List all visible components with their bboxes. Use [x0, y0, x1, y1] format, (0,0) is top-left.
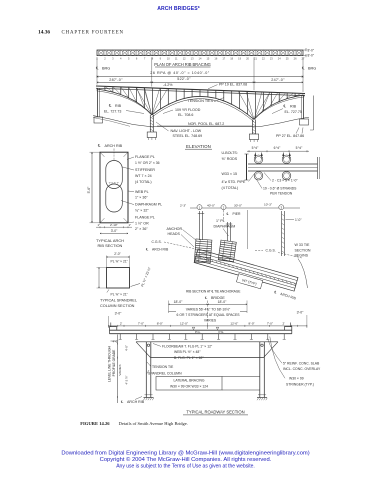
- svg-text:NAV. LIGHT - LOW: NAV. LIGHT - LOW: [171, 129, 202, 133]
- svg-text:Any use is subject to the Term: Any use is subject to the Terms of Use a…: [116, 463, 255, 469]
- svg-text:℄: ℄: [97, 144, 101, 148]
- svg-text:W 33 TIE: W 33 TIE: [295, 243, 311, 247]
- anchor block 2: [218, 240, 236, 262]
- left abutment bent: [97, 88, 99, 117]
- svg-text:ARCH RIB: ARCH RIB: [127, 400, 145, 404]
- ground and water line: [93, 116, 309, 127]
- svg-text:8'-0": 8'-0": [308, 49, 315, 53]
- svg-text:2'-3": 2'-3": [180, 203, 186, 207]
- hangers / spandrel columns: [104, 86, 106, 90]
- right abutment bent: [303, 95, 305, 119]
- svg-text:FIGURE 14.26: FIGURE 14.26: [80, 421, 110, 426]
- svg-text:CHAPTER FOURTEEN: CHAPTER FOURTEEN: [62, 30, 124, 35]
- svg-text:2 - C3 × 5 × 1'-0": 2 - C3 × 5 × 1'-0": [272, 179, 298, 183]
- channel band: [248, 163, 318, 165]
- svg-text:TENSION TIES: TENSION TIES: [188, 99, 214, 103]
- svg-text:30'-0": 30'-0": [234, 203, 242, 207]
- svg-text:1": 1": [129, 223, 132, 227]
- svg-text:ARCH BRIDGES*: ARCH BRIDGES*: [157, 6, 200, 12]
- floorbeam: [136, 341, 278, 343]
- svg-text:PP 19 EL. 837.08: PP 19 EL. 837.08: [219, 83, 247, 87]
- svg-text:5" REINF. CONC. SLAB: 5" REINF. CONC. SLAB: [283, 361, 320, 365]
- svg-text:8'-0": 8'-0": [308, 53, 315, 57]
- spandrel column box: [107, 268, 130, 289]
- column 3: [281, 211, 283, 256]
- svg-text:10'-3": 10'-3": [264, 203, 272, 207]
- u-bolt rods: [254, 153, 256, 159]
- rib centerline: [113, 155, 115, 162]
- leader std pipe: [249, 174, 255, 182]
- svg-text:PER TENDON: PER TENDON: [270, 192, 293, 196]
- rib section box: [100, 152, 128, 223]
- column base hatches: [144, 398, 145, 400]
- deck slab: [110, 329, 292, 331]
- band right dims 8'-0": [305, 48, 307, 51]
- svg-text:RIB: RIB: [115, 104, 122, 108]
- svg-text:ARCH RIB: ARCH RIB: [152, 248, 169, 252]
- svg-text:19 - 0.6" Ø STRANDS: 19 - 0.6" Ø STRANDS: [263, 187, 297, 191]
- svg-text:PROFILE GRADE: PROFILE GRADE: [112, 349, 116, 377]
- extension lines from band to deck: [96, 57, 98, 84]
- svg-text:7'-0": 7'-0": [267, 322, 273, 326]
- left dim column: [117, 335, 119, 404]
- svg-text:4"⌀ STD. PIPE: 4"⌀ STD. PIPE: [222, 180, 246, 184]
- svg-text:26 RPA @ 40'-0" = 1040'-0": 26 RPA @ 40'-0" = 1040'-0": [150, 71, 210, 75]
- left spandrel column: [145, 342, 147, 398]
- anchor block 1: [194, 239, 212, 263]
- svg-text:5'-6": 5'-6": [87, 186, 91, 194]
- svg-text:4'-0": 4'-0": [125, 345, 129, 351]
- svg-text:VARIES: VARIES: [118, 364, 122, 375]
- svg-text:C.G.S.: C.G.S.: [266, 249, 276, 253]
- svg-text:℄: ℄: [108, 104, 112, 108]
- svg-text:STRINGER (TYP.): STRINGER (TYP.): [286, 382, 314, 386]
- svg-text:BEGINS: BEGINS: [295, 254, 309, 258]
- svg-text:3'-0": 3'-0": [297, 311, 305, 315]
- svg-text:287'-0": 287'-0": [109, 78, 123, 82]
- svg-text:PL ⅝" × 21": PL ⅝" × 21": [111, 292, 129, 296]
- left curb: [110, 327, 117, 334]
- svg-text:W33 × 15: W33 × 15: [222, 172, 237, 176]
- stringer webs: [119, 334, 121, 340]
- pipes with strands: [254, 155, 263, 164]
- 5-6 vertical dim: [91, 153, 93, 223]
- right side arch rib: [254, 95, 305, 120]
- svg-text:12'-0": 12'-0": [230, 322, 238, 326]
- spandrel col left dim: [98, 268, 100, 289]
- column 2: [226, 222, 228, 241]
- right pier: [252, 120, 254, 135]
- svg-text:DIAPHRAGM PL: DIAPHRAGM PL: [135, 203, 162, 207]
- svg-text:522'-0": 522'-0": [177, 77, 191, 81]
- svg-text:RIB SECTION AT ℄ TIE ANCHORAGE: RIB SECTION AT ℄ TIE ANCHORAGE: [186, 290, 241, 294]
- svg-text:-4.2%: -4.2%: [163, 83, 173, 87]
- svg-text:LATERAL BRACING: LATERAL BRACING: [173, 379, 204, 383]
- svg-text:109 YR FLOOD: 109 YR FLOOD: [175, 108, 201, 112]
- rib box corner marks: [100, 152, 105, 157]
- svg-text:14.36: 14.36: [38, 30, 50, 36]
- arch rib band (tilted): [192, 249, 298, 298]
- svg-text:¾" × 32": ¾" × 32": [135, 208, 149, 212]
- svg-text:2'-0": 2'-0": [114, 252, 121, 256]
- svg-text:HEADS: HEADS: [168, 232, 181, 236]
- svg-text:RIB: RIB: [290, 105, 297, 109]
- svg-text:6 OR 7 STRINGERS AT EQUAL SPAC: 6 OR 7 STRINGERS AT EQUAL SPACES: [177, 313, 241, 317]
- svg-text:P.G.: P.G.: [195, 330, 201, 334]
- side span diagonals: [105, 86, 113, 92]
- svg-text:RIB SECTION: RIB SECTION: [98, 243, 123, 248]
- svg-text:1" × 36": 1" × 36": [135, 196, 148, 200]
- svg-text:COLUMN SECTION: COLUMN SECTION: [100, 304, 135, 308]
- svg-text:ARCH RIB: ARCH RIB: [105, 144, 123, 148]
- svg-text:EL. 727.75: EL. 727.75: [285, 110, 302, 114]
- svg-text:18'-0": 18'-0": [174, 300, 183, 304]
- svg-text:6 ½": 6 ½": [274, 146, 281, 150]
- svg-text:W30 × 99 OR W33 × 124: W30 × 99 OR W33 × 124: [170, 384, 208, 388]
- svg-text:247'-0": 247'-0": [271, 78, 285, 82]
- left pier: [149, 115, 151, 132]
- svg-text:PLAN OF ARCH RIB BRACING: PLAN OF ARCH RIB BRACING: [154, 62, 211, 67]
- svg-text:1 ½" OR: 1 ½" OR: [135, 221, 149, 225]
- column 1: [198, 211, 200, 240]
- svg-text:5 ½": 5 ½": [252, 146, 259, 150]
- svg-text:1": 1": [98, 223, 101, 227]
- svg-text:1'-0": 1'-0": [295, 218, 302, 222]
- svg-text:18'-0": 18'-0": [218, 300, 227, 304]
- svg-text:TENSION TIE: TENSION TIE: [152, 365, 174, 369]
- svg-text:VARIES 56'-4¾" TO 68'-10½": VARIES 56'-4¾" TO 68'-10½": [186, 308, 231, 312]
- svg-text:PL ⅝" × 21": PL ⅝" × 21": [111, 260, 129, 264]
- svg-text:NOR. POOL EL. 687.2: NOR. POOL EL. 687.2: [188, 122, 224, 126]
- svg-text:WT 7 × 24: WT 7 × 24: [135, 174, 152, 178]
- svg-text:Downloaded from Digital Engine: Downloaded from Digital Engineering Libr…: [61, 450, 309, 456]
- svg-text:5 ½": 5 ½": [296, 146, 303, 150]
- svg-text:TYPICAL SPANDREL: TYPICAL SPANDREL: [100, 299, 137, 303]
- svg-text:8'-0": 8'-0": [157, 322, 163, 326]
- w33 beam end: [246, 154, 248, 180]
- svg-text:1 ½" OR 2" × 36: 1 ½" OR 2" × 36: [135, 161, 160, 165]
- svg-text:SPANDREL COLUMN: SPANDREL COLUMN: [148, 372, 182, 376]
- svg-text:7" 9'-6" 7": 7" 9'-6" 7": [109, 182, 120, 185]
- plan of arch rib bracing band: [97, 50, 303, 56]
- svg-text:VARIES: VARIES: [204, 319, 217, 323]
- svg-text:WEB PL: WEB PL: [135, 190, 149, 194]
- svg-text:ELEVATION: ELEVATION: [186, 144, 211, 149]
- svg-text:W30 × 99: W30 × 99: [289, 377, 304, 381]
- extension line: [247, 210, 249, 249]
- svg-text:7'-0": 7'-0": [138, 322, 144, 326]
- svg-text:4'-0": 4'-0": [113, 340, 119, 344]
- svg-text:4'-2 ½": 4'-2 ½": [125, 375, 129, 384]
- W7 typ tag: [236, 274, 262, 289]
- svg-text:ANCHOR: ANCHOR: [167, 227, 183, 231]
- svg-text:(4 TOTAL): (4 TOTAL): [222, 186, 239, 190]
- svg-text:STEEL EL. 748.69: STEEL EL. 748.69: [173, 134, 203, 138]
- svg-text:FLANGE PL: FLANGE PL: [135, 155, 155, 159]
- svg-text:2" × 36": 2" × 36": [135, 227, 148, 231]
- svg-text:⅝" RODS: ⅝" RODS: [222, 157, 238, 161]
- svg-text:DIAPHRAGM: DIAPHRAGM: [214, 224, 236, 228]
- svg-text:8'-0": 8'-0": [249, 322, 255, 326]
- svg-text:C.G.S.: C.G.S.: [152, 240, 162, 244]
- svg-text:3'-0": 3'-0": [111, 229, 118, 233]
- svg-text:BRG: BRG: [102, 67, 110, 71]
- svg-text:U-BOLTS:: U-BOLTS:: [222, 151, 238, 155]
- svg-text:INCL. CONC. OVERLAY: INCL. CONC. OVERLAY: [283, 367, 321, 371]
- svg-text:WEB PL ½" × 48": WEB PL ½" × 48": [174, 350, 201, 354]
- svg-text:SECTION: SECTION: [295, 248, 311, 252]
- left side arch rib: [97, 89, 152, 115]
- main arch rib: [152, 96, 254, 119]
- diagonals near piers: [136, 87, 152, 115]
- svg-text:TYPICAL ROADWAY SECTION: TYPICAL ROADWAY SECTION: [186, 409, 244, 414]
- elevation deck line: [96, 86, 305, 94]
- svg-text:BRG: BRG: [308, 67, 316, 71]
- svg-text:3'-0": 3'-0": [115, 312, 123, 316]
- svg-text:EL. 727.73: EL. 727.73: [104, 109, 121, 113]
- svg-text:1" PL: 1" PL: [216, 219, 225, 223]
- svg-text:PP 27 EL. 847.86: PP 27 EL. 847.86: [276, 134, 304, 138]
- svg-text:FLANGE PL: FLANGE PL: [135, 216, 155, 220]
- svg-text:40'-0": 40'-0": [207, 203, 215, 207]
- svg-text:B. FLG. PL 1" × 18": B. FLG. PL 1" × 18": [174, 356, 204, 360]
- right curb: [285, 327, 292, 334]
- svg-text:FLOORBEAM T. FLG PL 1" × 12": FLOORBEAM T. FLG PL 1" × 12": [162, 344, 213, 348]
- svg-text:(4 TOTAL): (4 TOTAL): [135, 180, 152, 184]
- floorbeam stiffeners: [145, 342, 147, 357]
- lateral bracing box: [156, 377, 222, 391]
- svg-text:12'-0": 12'-0": [180, 322, 188, 326]
- svg-text:EL. 708.6: EL. 708.6: [178, 113, 193, 117]
- svg-text:STIFFENER: STIFFENER: [135, 168, 155, 172]
- rib section slot opening: [106, 161, 123, 189]
- svg-text:P.G.: P.G.: [219, 330, 225, 334]
- column joint dots: [147, 344, 149, 346]
- right spandrel column: [259, 342, 261, 398]
- dim row deck widths: [109, 325, 307, 327]
- svg-text:Details of Smith Avenue High B: Details of Smith Avenue High Bridge.: [119, 421, 188, 426]
- anchorage dim row: [190, 207, 300, 209]
- svg-text:2'-10": 2'-10": [110, 223, 118, 227]
- svg-text:PIER: PIER: [233, 212, 241, 216]
- svg-text:℄: ℄: [283, 105, 287, 109]
- svg-text:2': 2': [283, 322, 286, 326]
- svg-text:Copyright © 2004 The McGraw-Hi: Copyright © 2004 The McGraw-Hill Compani…: [100, 456, 272, 463]
